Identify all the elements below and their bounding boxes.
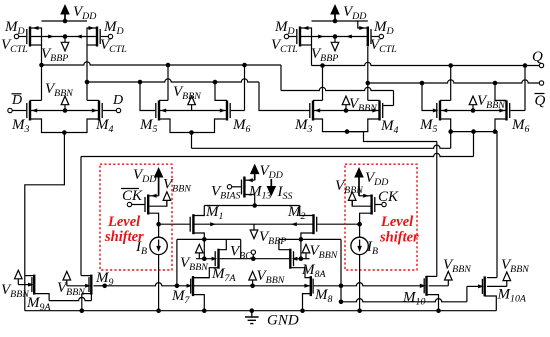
node M3'/M4' tail xyxy=(345,129,350,134)
body bias VBBN symbol M9 xyxy=(57,271,86,298)
wire rail1' (right latch output to Q) xyxy=(312,62,540,65)
ground symbol xyxy=(245,311,299,329)
wire M5 gate from rail2 xyxy=(140,82,155,111)
transistor M9A xyxy=(26,275,51,313)
transistor MD (right load, right device) xyxy=(358,19,397,55)
wire M10 body stub xyxy=(429,285,449,287)
svg-text:CK: CK xyxy=(378,189,399,205)
node body center right block xyxy=(333,34,338,39)
body bias VBBN symbol rail A center xyxy=(249,268,286,286)
wire rail2 (left latch output B) xyxy=(87,79,259,82)
svg-text:Q: Q xyxy=(532,49,543,65)
node rail B' junction xyxy=(339,300,344,305)
svg-text:GND: GND xyxy=(267,313,299,329)
node body line M3/M4 xyxy=(63,108,68,113)
wire level shifter left drain node xyxy=(148,213,158,237)
wire M2 source node line (right segment) xyxy=(279,238,341,240)
node rail A junction with M1-source branch xyxy=(175,284,180,289)
wire M5 drain to rail1 (hops rail2) xyxy=(159,99,168,101)
wire M9A source link to M9 source xyxy=(49,297,91,300)
wire MD right drain down to rail2 (hops rail1) xyxy=(86,45,88,100)
wire M1 source node line (left segment) xyxy=(177,238,241,240)
wire GND rail xyxy=(25,310,497,312)
node body center left block xyxy=(63,34,68,39)
wire M8A source down to M8 drain xyxy=(290,268,311,278)
body bias VBBN symbol M5/M6 xyxy=(173,84,202,111)
transistor M13 (tail current PMOS) xyxy=(227,177,271,202)
transistor M7A xyxy=(211,249,236,284)
transistor M9 xyxy=(89,270,114,295)
wire body line M5'/M6' with arrows xyxy=(440,110,507,112)
body bias VBBP symbol right block xyxy=(311,37,339,65)
wire M3' drain to rail1' (hops y90) xyxy=(313,99,323,101)
node tail junction M5' source / R1 xyxy=(448,129,453,134)
transistor MD (left load, right device) xyxy=(87,19,127,55)
current source IB left xyxy=(135,237,167,257)
wire M5'/M6' common source tail xyxy=(440,119,497,278)
wire M1 drain up to tail rail xyxy=(193,206,204,216)
wire body line VBBP right block xyxy=(300,36,335,38)
level shifter left box xyxy=(100,164,172,270)
wire level shifter left source xyxy=(148,195,158,197)
current source IB right xyxy=(351,237,378,257)
wire body line VBBP left block xyxy=(30,36,65,38)
node rail1' junctions xyxy=(320,63,325,68)
wire body line M3/M4 with arrows xyxy=(30,110,99,112)
transistor CKbar PMOS left level shifter xyxy=(121,188,148,215)
wire M8 source down to GND rail xyxy=(303,294,311,311)
svg-text:Q: Q xyxy=(535,93,546,109)
body bias VBBN symbol M5'/M6' xyxy=(469,93,506,111)
node level shifter left on GND xyxy=(156,308,161,313)
node M5/M6 tail xyxy=(189,130,194,135)
body bias VBBP symbol M1/M2 xyxy=(250,224,286,247)
node rail A' junction xyxy=(339,284,344,289)
node level shifter left output xyxy=(156,222,161,227)
wire M6 gate from rail1 (hops rail2) xyxy=(231,110,245,112)
transistor M8 xyxy=(311,276,333,305)
wire M1 source down to node xyxy=(193,233,204,239)
wire tail down to M9A drain xyxy=(25,133,65,311)
transistor CK PMOS right level shifter xyxy=(372,189,399,215)
transistor M8A xyxy=(290,249,326,280)
node tail junction R2 xyxy=(471,129,476,134)
node level shifter right on GND xyxy=(357,308,362,313)
wire tail route down to M10 drain (hops R1 R2) xyxy=(436,142,438,277)
wire M5' drain to rail1' (hops rail2') xyxy=(440,99,451,101)
wire tail down to rail R1 xyxy=(191,133,193,149)
current ISS arrow xyxy=(267,179,293,202)
body bias VBBN symbol M3'/M4' xyxy=(342,96,378,114)
svg-text:CK: CK xyxy=(122,188,143,204)
power VDD (right load block) xyxy=(330,4,366,22)
wire M2 drain up to tail rail xyxy=(300,206,314,216)
power VDD left level shifter xyxy=(133,167,163,196)
node M9 source on GND rail xyxy=(80,308,85,313)
svg-text:D: D xyxy=(11,93,22,108)
body bias VBBN symbol left level shifter xyxy=(148,177,192,207)
wire rail A middle segment M7 to M8 xyxy=(194,285,310,287)
wire M9A gate/body lead xyxy=(18,284,31,286)
wire rail A' (right bottom gate rail) xyxy=(314,285,341,287)
level shifter right box xyxy=(345,164,417,270)
wire top rail right block xyxy=(312,20,368,22)
wire M10A body stub xyxy=(487,285,507,287)
transistor M6 (left cross pair) xyxy=(227,101,251,136)
wire M8A drain up to node line xyxy=(279,239,290,249)
node rail A center VBBN xyxy=(250,284,255,289)
wire level shifter right drain node xyxy=(360,213,372,237)
node M2 source xyxy=(299,237,304,242)
body bias VBBN symbol right level shifter xyxy=(335,178,372,206)
node VDD rail right xyxy=(333,19,338,24)
terminal Qbar output xyxy=(539,81,543,85)
wire MD' left drain down to rail1' xyxy=(311,45,313,66)
wire MD'/M4' drain vertical (hops rail1' and y90 line) xyxy=(367,47,369,100)
wire M7A source down to M7 drain xyxy=(193,268,219,278)
wire left node to rail A xyxy=(176,239,178,285)
terminal VBC xyxy=(230,244,256,262)
wire M3'/M4' common source tail xyxy=(313,119,437,142)
wire M10A source down to GND rail end xyxy=(485,296,497,311)
transistor M10A xyxy=(482,276,526,304)
transistor M6 (right cross pair) xyxy=(507,101,530,136)
node tail junction M6' source xyxy=(493,129,498,134)
wire rail R1 left tail to right tail (hops M10 vertical) xyxy=(192,145,451,148)
transistor M5 (left cross pair) xyxy=(139,101,159,136)
wire M3/M4 common source tail xyxy=(30,119,99,133)
wire rail2' (right latch output to Qbar) xyxy=(368,80,540,83)
wire M4' drain to rail2' junction xyxy=(368,99,380,101)
wire rail R2 M9 drain to right tail (hops M10 vertical) xyxy=(81,153,474,156)
power VDD (left load block) xyxy=(60,4,96,22)
wire M8A gate lead with body arrow xyxy=(295,258,310,260)
wire body line M3'/M4' with arrows xyxy=(313,110,380,112)
node body line M5'/M6' xyxy=(471,108,476,113)
wire M6' gate from rail1' (hops rail2') xyxy=(510,110,525,112)
node M3/M4 tail xyxy=(62,130,67,135)
svg-text:Level: Level xyxy=(107,214,140,230)
node M7 source on GND rail xyxy=(202,308,207,313)
wire gate line M7A to M8A xyxy=(220,258,289,260)
wire M6' drain to rail2' xyxy=(495,83,507,100)
wire M9A drain lead xyxy=(25,275,34,277)
node rail2 junctions xyxy=(85,80,90,85)
node body line M3'/M4' xyxy=(344,108,349,113)
node rail2' junctions xyxy=(366,81,371,86)
transistor M4 (left input pair) xyxy=(95,93,123,135)
label Level shifter left xyxy=(104,214,144,245)
body bias VBBN symbol M3/M4 xyxy=(45,81,74,111)
wire rail A (VBBN/clock rail left) xyxy=(105,283,190,286)
transistor MD (left load, left device) xyxy=(1,19,42,55)
wire rail1 (left latch output A) xyxy=(42,62,282,65)
wire tail rail M1/M2 drains xyxy=(204,205,299,207)
svg-text:Level: Level xyxy=(380,214,413,230)
wire M2 source down to node xyxy=(301,233,314,259)
svg-text:D: D xyxy=(112,93,123,108)
wire M7A gate lead with body arrow xyxy=(196,258,215,260)
body bias VBBN symbol M10 xyxy=(443,257,472,286)
body bias VBBN symbol M7A xyxy=(180,244,209,273)
wire M10 drain lead xyxy=(427,275,437,277)
transistor M2 (clock pair right) xyxy=(287,204,317,234)
body bias VBBN symbol M9A xyxy=(1,270,30,300)
wire M7A drain up to node line xyxy=(219,239,227,249)
node VBC stem xyxy=(251,256,256,261)
wire M13 source to VDD xyxy=(244,179,254,181)
wire level shifter right source xyxy=(359,195,372,197)
node level shifter right output xyxy=(357,222,362,227)
transistor M1 (clock pair left) xyxy=(190,204,223,234)
wire M9 stub to rail A xyxy=(94,285,105,287)
wire M5/M6 common source tail xyxy=(159,119,227,133)
wire IB left down to GND rail xyxy=(158,255,160,311)
power VDD right level shifter xyxy=(354,167,388,196)
transistor M10 xyxy=(402,276,427,308)
node M8A gate junction xyxy=(299,256,304,261)
wire node down to M7A gate xyxy=(203,239,205,258)
wire right node down to rail A' xyxy=(340,239,342,285)
wire rail1 to right-half gate routing y90 xyxy=(280,65,282,91)
wire M9 gate/body lead xyxy=(67,285,89,287)
wire rail2 down to M3' gate xyxy=(259,82,309,111)
wire IB right down to GND rail xyxy=(359,255,361,311)
body bias VBBN symbol M8A xyxy=(302,243,339,261)
wire M7 source down to GND rail xyxy=(193,295,204,311)
node M1 source xyxy=(202,237,207,242)
transistor M7 xyxy=(171,276,193,306)
node M13 drain on tail rail xyxy=(252,203,257,208)
node M10 source on GND rail xyxy=(436,308,441,313)
wire M4 drain to rail2 xyxy=(87,99,99,101)
transistor M5 (right cross pair) xyxy=(419,101,440,136)
wire M3 drain to rail1 xyxy=(30,99,42,101)
power VDD M13 xyxy=(250,163,283,181)
transistor M3 (left input pair) xyxy=(8,93,30,135)
wire M2 gate from right level shifter xyxy=(317,223,359,225)
wire body line M5/M6 with arrows xyxy=(159,110,227,112)
body bias VBBN symbol M10A xyxy=(501,257,530,286)
wire M10A drain lead xyxy=(487,277,497,279)
wire M6 drain to rail2 xyxy=(215,82,227,100)
wire VBC tap down to gate line xyxy=(240,239,242,258)
body bias VBBP symbol left block xyxy=(41,37,69,65)
wire rail B' to M10A gate xyxy=(341,299,467,302)
wire body line M1/M2 VBBP xyxy=(193,223,313,225)
transistor M4 (right input pair) xyxy=(380,101,399,137)
node M8 source on GND rail xyxy=(300,308,305,313)
wire M7 drain lead xyxy=(193,277,209,279)
node rail1 junctions xyxy=(39,63,44,68)
wire MD left drain down to rail1 xyxy=(41,45,43,100)
node ground tap xyxy=(250,308,255,313)
terminal Q output xyxy=(539,63,543,67)
wire tie rail A' to rail B' xyxy=(340,286,342,302)
wire M13 drain to tail rail xyxy=(244,195,254,206)
wire M1 gate from left level shifter xyxy=(159,223,190,225)
node M7A gate junction xyxy=(202,256,207,261)
node VDD rail left xyxy=(63,19,68,24)
wire M9 drain lead up to R2 xyxy=(81,275,91,277)
wire M9 source down to GND (hops source link) xyxy=(82,293,92,295)
transistor MD (right load, left device) xyxy=(271,19,312,55)
svg-text:shifter: shifter xyxy=(379,230,419,246)
transistor M3 (right input pair) xyxy=(294,101,313,136)
wire top rail left block xyxy=(42,20,88,22)
wire M5' gate from rail2' xyxy=(422,83,434,111)
wire M10 source down to GND rail xyxy=(427,295,439,311)
node M9 rail A junction xyxy=(102,284,107,289)
label Level shifter right xyxy=(379,214,419,246)
